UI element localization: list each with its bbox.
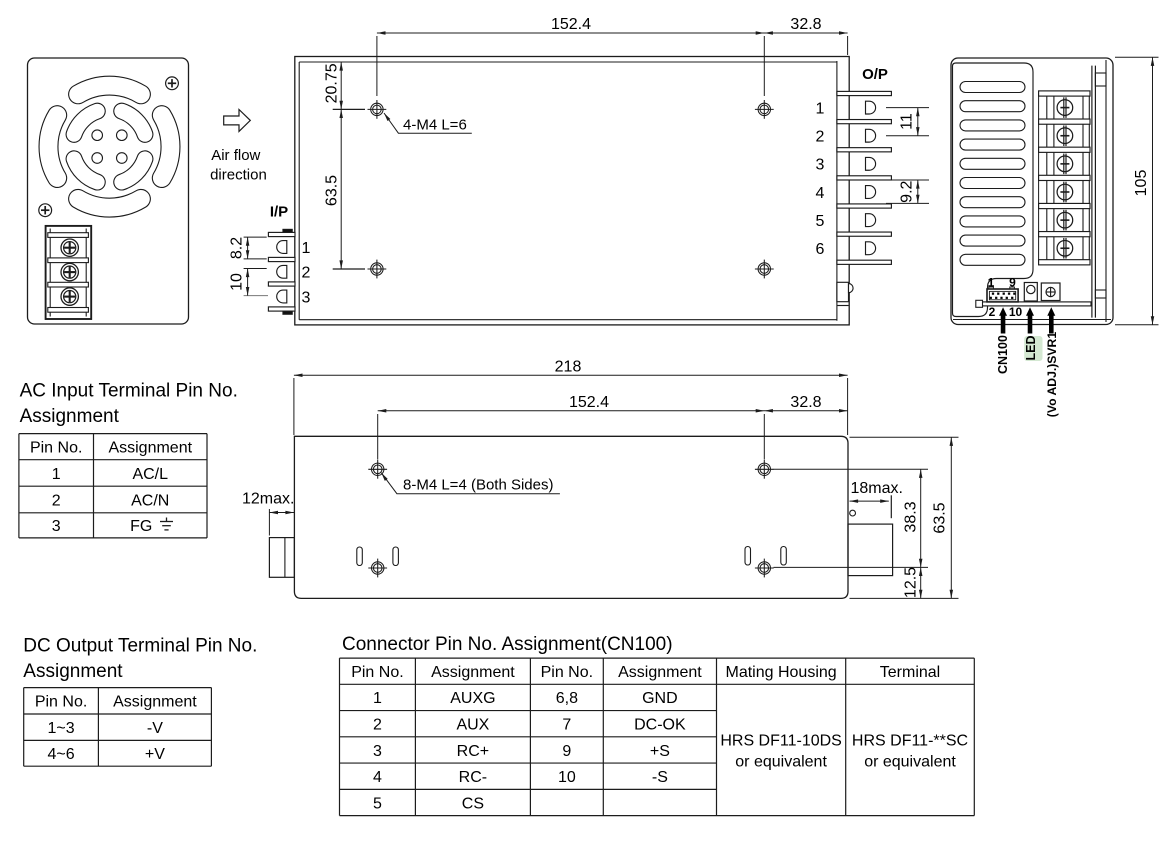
svg-text:63.5: 63.5 [932,502,949,533]
dim 63.5 middle [850,437,959,598]
svg-text:AC/L: AC/L [132,466,168,483]
svg-text:CN100: CN100 [996,335,1010,374]
svg-text:2: 2 [373,716,382,733]
O/P label [862,66,888,83]
svg-text:152.4: 152.4 [569,394,609,411]
svg-text:7: 7 [562,716,571,733]
top view mounting holes [368,100,774,278]
right view terminal screws [1057,97,1073,258]
svg-text:10: 10 [1009,305,1023,319]
svg-text:LED: LED [1024,336,1038,361]
AC input table [19,434,207,538]
svg-text:12.5: 12.5 [903,567,920,598]
AC input terminal block (front) [46,226,92,319]
svg-text:4~6: 4~6 [47,746,74,763]
I/P pin numbers 1-3 [302,240,311,306]
svg-text:2: 2 [816,129,825,146]
svg-text:2: 2 [302,265,311,282]
svg-text:6: 6 [816,241,825,258]
svg-text:Mating Housing: Mating Housing [726,664,837,681]
svg-text:GND: GND [642,690,678,707]
svg-text:2: 2 [989,305,996,319]
svg-text:-V: -V [147,720,163,737]
DC output table [24,688,212,767]
svg-text:Pin No.: Pin No. [35,694,87,711]
svg-text:Assignment: Assignment [23,661,123,682]
svg-text:8.2: 8.2 [229,237,246,259]
fan grille inner arcs [74,111,145,182]
front view: fan panel outline [28,58,189,324]
side view case outline [294,436,848,598]
svg-text:I/P: I/P [270,203,288,220]
fan grille outer arcs [48,86,170,208]
svg-text:AC Input Terminal Pin No.: AC Input Terminal Pin No. [20,381,238,402]
LED window [1024,283,1037,302]
PCB edge bar [976,300,1091,307]
svg-text:9.2: 9.2 [899,180,916,202]
svg-text:63.5: 63.5 [323,175,340,206]
right view terminal block [1039,91,1090,265]
side view mounting holes [368,460,773,577]
svg-text:1: 1 [302,240,311,257]
svg-text:(Vo ADJ.)SVR1: (Vo ADJ.)SVR1 [1045,332,1059,418]
svg-text:4-M4 L=6: 4-M4 L=6 [403,117,467,134]
I/P mounting tabs [283,229,292,314]
svg-text:10: 10 [558,769,576,786]
dim 32.8 middle [764,394,847,413]
svg-text:3: 3 [816,157,825,174]
svg-text:3: 3 [373,743,382,760]
right view face plate [953,63,1034,317]
svg-text:20.75: 20.75 [323,63,340,103]
svg-text:4: 4 [373,769,382,786]
O/P pin numbers 1-6 [816,100,825,258]
svg-text:1: 1 [816,100,825,117]
svg-text:+V: +V [145,746,165,763]
svg-text:+S: +S [650,743,670,760]
svg-text:18max.: 18max. [851,480,903,497]
svg-text:218: 218 [555,359,582,376]
svg-text:Assignment: Assignment [618,664,702,681]
svg-text:O/P: O/P [862,66,888,83]
svg-text:Assignment: Assignment [431,664,515,681]
air flow label [210,147,267,183]
svg-text:CS: CS [462,795,484,812]
svg-text:3: 3 [302,289,311,306]
label 4-M4 L=6 with leader [383,112,472,134]
svg-text:1: 1 [988,276,995,290]
svg-text:Assignment: Assignment [108,439,192,456]
svg-text:Pin No.: Pin No. [541,664,593,681]
dim 8.2 [229,237,267,259]
connector table title [342,634,673,655]
O/P terminal lugs [866,101,876,254]
dim 11 [886,108,929,136]
svg-text:direction: direction [210,166,267,183]
svg-text:1~3: 1~3 [47,720,74,737]
svg-text:HRS DF11-**SC: HRS DF11-**SC [852,732,968,749]
svg-text:Terminal: Terminal [880,664,940,681]
DC output table title [23,636,257,683]
front panel screw top-right [166,77,179,90]
air flow arrow [224,110,251,132]
side view vent slots [357,547,787,566]
potentiometer SVR1 [1041,283,1060,301]
svg-text:6,8: 6,8 [556,690,578,707]
svg-text:FG: FG [130,518,152,535]
svg-text:10: 10 [229,273,246,291]
svg-text:AUX: AUX [456,716,489,733]
top view case outline [295,57,849,325]
svg-text:DC-OK: DC-OK [634,716,686,733]
label 8-M4 L=4 with leader [380,472,560,494]
front panel screw left [39,204,52,217]
svg-text:Assignment: Assignment [113,694,197,711]
svg-text:2: 2 [52,492,61,509]
vent slots [960,82,1025,266]
svg-text:12max.: 12max. [242,491,294,508]
mounting flange bracket [1092,60,1106,322]
fan hub holes [92,130,127,163]
svg-text:32.8: 32.8 [790,16,821,33]
dim 12.5 [903,567,923,599]
rotated labels CN100 LED SVR1 [996,332,1059,418]
CN100 pin labels [988,276,1023,320]
output terminal protrusion (18max) [848,510,893,575]
dim 12max [242,491,294,536]
dim 105 [1115,57,1159,325]
dim 63.5 top view [323,109,365,269]
LED label green highlight [1024,336,1042,361]
dim 38.3 [774,469,929,567]
svg-text:152.4: 152.4 [551,16,591,33]
svg-text:105: 105 [1133,170,1150,197]
dim 20.75 [323,62,365,109]
dim 32.8 top [764,16,847,55]
svg-text:Air flow: Air flow [211,147,260,164]
right view case outline [951,58,1113,325]
input terminal protrusion (12max) [269,538,294,578]
svg-text:or equivalent: or equivalent [735,753,827,770]
svg-text:Pin No.: Pin No. [30,439,82,456]
svg-text:RC-: RC- [459,769,487,786]
svg-text:9: 9 [1009,276,1016,290]
svg-text:AC/N: AC/N [131,492,169,509]
svg-text:AUXG: AUXG [450,690,495,707]
dim 9.2 [886,180,929,203]
dim 10 [229,269,269,296]
dim 218 [294,359,848,436]
svg-text:3: 3 [52,518,61,535]
svg-text:5: 5 [816,213,825,230]
svg-text:Connector Pin No. Assignment(C: Connector Pin No. Assignment(CN100) [342,634,673,655]
svg-text:32.8: 32.8 [790,394,821,411]
svg-text:DC Output Terminal Pin No.: DC Output Terminal Pin No. [23,636,257,657]
svg-text:9: 9 [562,743,571,760]
svg-text:Assignment: Assignment [20,406,120,427]
svg-text:1: 1 [373,690,382,707]
svg-text:5: 5 [373,795,382,812]
pointer arrows to CN100 / LED / SVR1 [999,307,1055,333]
svg-text:-S: -S [652,769,668,786]
AC input table title [20,381,238,428]
svg-text:4: 4 [816,185,825,202]
svg-text:Pin No.: Pin No. [351,664,403,681]
chassis stud bottom right [837,282,853,305]
I/P terminal lugs [277,241,287,303]
dim 152.4 middle [378,394,848,460]
svg-text:1: 1 [52,466,61,483]
I/P terminal bars [268,232,295,311]
svg-text:or equivalent: or equivalent [864,753,956,770]
dim 18max [850,480,903,518]
connector CN100 table [340,658,975,816]
dim 152.4 top [377,16,848,96]
svg-text:HRS DF11-10DS: HRS DF11-10DS [720,732,842,749]
svg-text:RC+: RC+ [457,743,489,760]
O/P terminal bars [837,91,892,264]
I/P label [270,203,288,220]
terminal block screws 1-3 [61,239,78,305]
connector CN100 [987,287,1018,302]
svg-text:38.3: 38.3 [903,501,920,532]
svg-text:8-M4 L=4 (Both Sides): 8-M4 L=4 (Both Sides) [403,477,554,494]
svg-text:11: 11 [899,113,916,130]
